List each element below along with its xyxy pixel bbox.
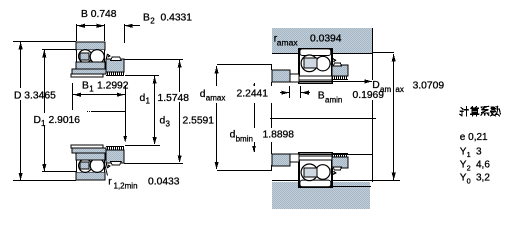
svg-text:0: 0	[467, 177, 471, 186]
svg-text:B 0.748: B 0.748	[81, 9, 117, 20]
svg-text:amax: amax	[277, 38, 299, 48]
svg-text:4,6: 4,6	[476, 160, 490, 171]
svg-text:B: B	[318, 91, 325, 102]
svg-text:1: 1	[146, 97, 151, 106]
svg-text:3: 3	[476, 146, 482, 157]
svg-text:2: 2	[467, 163, 471, 172]
svg-text:1.8898: 1.8898	[263, 130, 295, 141]
svg-text:D: D	[372, 80, 379, 91]
svg-text:am: am	[380, 85, 391, 94]
svg-text:2.2441: 2.2441	[237, 88, 269, 99]
svg-text:1.5748: 1.5748	[158, 93, 190, 104]
svg-text:amax: amax	[206, 94, 226, 103]
svg-text:D 3.3465: D 3.3465	[14, 90, 56, 101]
svg-text:2: 2	[150, 16, 155, 25]
svg-text:B: B	[82, 81, 89, 92]
svg-text:2.5591: 2.5591	[183, 116, 215, 127]
svg-text:3: 3	[166, 119, 171, 128]
svg-text:0.4331: 0.4331	[161, 13, 193, 24]
svg-text:e 0,21: e 0,21	[460, 132, 488, 143]
svg-text:3,2: 3,2	[476, 173, 490, 184]
svg-text:amin: amin	[325, 95, 342, 104]
svg-text:B: B	[143, 13, 150, 24]
svg-text:D: D	[34, 115, 41, 126]
svg-text:bmin: bmin	[236, 135, 253, 144]
svg-text:r: r	[108, 177, 112, 188]
svg-text:0.0394: 0.0394	[310, 34, 342, 45]
svg-text:1.2992: 1.2992	[97, 81, 129, 92]
svg-text:1: 1	[467, 150, 471, 159]
svg-text:1: 1	[41, 119, 46, 128]
svg-text:2.9016: 2.9016	[49, 115, 81, 126]
svg-text:ax: ax	[395, 85, 403, 94]
svg-text:1: 1	[89, 85, 94, 94]
svg-text:3.0709: 3.0709	[413, 80, 445, 91]
svg-text:0.0433: 0.0433	[148, 177, 180, 188]
svg-text:1,2min: 1,2min	[114, 181, 138, 190]
